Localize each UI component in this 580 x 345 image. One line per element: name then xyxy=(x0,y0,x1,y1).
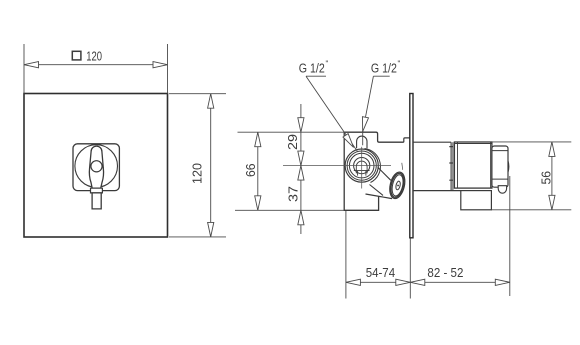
arrow 54-74 left xyxy=(346,279,361,285)
svg-text:": " xyxy=(326,60,329,69)
arrow above top xyxy=(298,118,304,133)
bowtie arrows at centerline xyxy=(298,151,304,166)
square symbol xyxy=(72,51,81,60)
arch legs xyxy=(356,167,367,174)
knob lower line xyxy=(492,178,508,180)
arrow below bottom xyxy=(298,210,304,225)
outlet port ellipses xyxy=(387,171,407,200)
sleeve between plate and cartridge xyxy=(413,141,451,143)
big rect inner top line xyxy=(454,143,492,145)
inlet boss ring 3 xyxy=(349,153,374,178)
leader underline left xyxy=(306,75,326,77)
svg-text:82 - 52: 82 - 52 xyxy=(427,265,463,280)
cartridge big rect xyxy=(454,142,492,188)
body outline xyxy=(344,132,404,210)
dimension line xyxy=(210,94,212,237)
top extension xyxy=(492,141,571,143)
dim 66 line xyxy=(257,132,259,210)
svg-text:37: 37 xyxy=(287,186,301,202)
vertical centerline of boss xyxy=(361,147,363,189)
dim line xyxy=(551,142,553,210)
svg-text:G 1/2: G 1/2 xyxy=(299,61,325,75)
arrow 66 up xyxy=(255,132,261,147)
sleeve right edge second line xyxy=(452,142,454,190)
inlet boss ring 2 xyxy=(347,151,376,180)
sleeve right edge xyxy=(450,142,452,190)
arrow right xyxy=(153,62,168,68)
extension line bottom xyxy=(169,236,226,238)
dimension line xyxy=(24,64,168,66)
chain dim line 29/37 xyxy=(300,104,302,234)
horizontal centerline (extends to chain dim) xyxy=(283,165,391,167)
inlet boss circle outer xyxy=(345,149,378,182)
svg-text:66: 66 xyxy=(244,163,258,177)
arrow 56 down xyxy=(549,195,555,210)
ext line knob right xyxy=(509,176,511,296)
svg-text:": " xyxy=(398,60,401,69)
angled outlet silhouette upper xyxy=(378,167,391,180)
arrow 56 up xyxy=(549,142,555,157)
knob side bulge xyxy=(507,161,510,172)
dim line xyxy=(346,281,510,283)
bowtie arrow lower xyxy=(298,166,304,181)
extension line right xyxy=(167,44,169,94)
svg-text:29: 29 xyxy=(286,134,300,150)
bottom extension xyxy=(491,209,571,211)
lever pivot circle xyxy=(91,161,102,172)
arrow 82-52 right xyxy=(495,279,510,285)
leader line right xyxy=(363,76,374,145)
square cover plate xyxy=(24,94,168,238)
sleeve ticks xyxy=(449,147,452,181)
angled outlet silhouette lower xyxy=(370,185,384,196)
leader arrow left xyxy=(343,134,356,150)
leader arrow right xyxy=(360,117,369,132)
chord line xyxy=(354,170,370,172)
leader underline right xyxy=(373,75,389,77)
inlet boss chamfer arc xyxy=(365,149,381,183)
arrow left xyxy=(24,62,39,68)
lever body xyxy=(89,146,103,188)
knob xyxy=(492,146,508,187)
outlet minor-axis tick xyxy=(401,163,404,170)
body collar at wall plate xyxy=(404,138,410,142)
leader line left xyxy=(306,76,357,151)
handle circle xyxy=(75,145,118,188)
svg-text:56: 56 xyxy=(540,171,554,185)
inlet bore circle xyxy=(354,158,370,174)
ext line body left xyxy=(345,211,347,299)
arrow down xyxy=(208,222,214,237)
inner arch detail xyxy=(356,161,367,166)
temp stop button xyxy=(498,186,506,194)
top inlet port G1/2 (U shape) xyxy=(357,136,367,148)
bottom extension (body bottom extended) xyxy=(235,209,344,211)
big rect inner right line xyxy=(490,142,492,188)
extension line top xyxy=(169,93,226,95)
wall plate xyxy=(410,94,413,238)
arrow 66 down xyxy=(255,196,261,211)
big rect inner left line xyxy=(457,142,459,188)
arrow 82-52 left (bowtie) xyxy=(410,279,425,285)
knob bevel line xyxy=(492,150,508,152)
handle rounded square escutcheon xyxy=(73,144,119,191)
arrow up xyxy=(208,94,214,109)
lower housing rect xyxy=(461,191,492,210)
svg-text:120: 120 xyxy=(86,48,102,63)
lever collar xyxy=(91,188,103,193)
body bottom chamfer diagonal xyxy=(366,194,393,199)
arrow 54-74 right (bowtie) xyxy=(396,279,411,285)
inner legs below chord xyxy=(358,171,366,176)
ext line wall plate xyxy=(409,239,411,299)
sleeve bottom line xyxy=(413,190,492,192)
lever stem xyxy=(92,193,101,209)
svg-text:120: 120 xyxy=(191,163,205,184)
svg-text:54-74: 54-74 xyxy=(366,265,395,280)
top extension (body top extended) xyxy=(238,131,345,133)
extension line left xyxy=(23,44,25,94)
svg-text:G 1/2: G 1/2 xyxy=(371,61,397,75)
